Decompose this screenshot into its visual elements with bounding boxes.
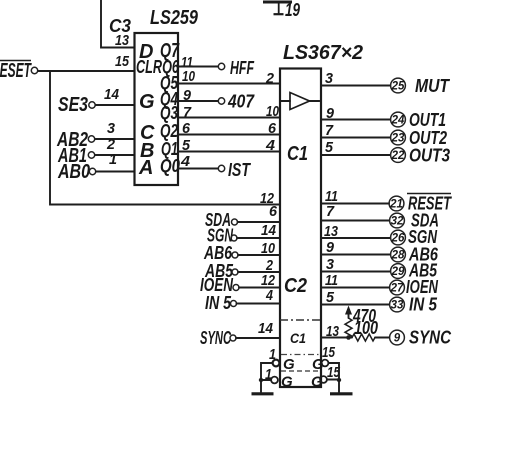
G pin circle lower left xyxy=(271,377,278,384)
signal SGN (left) xyxy=(207,226,237,246)
svg-text:10: 10 xyxy=(182,68,196,85)
svg-text:A: A xyxy=(138,157,153,179)
signal SDA (left) xyxy=(205,210,238,230)
ground (left) xyxy=(252,392,274,395)
svg-text:19: 19 xyxy=(285,0,300,20)
svg-text:Q0: Q0 xyxy=(160,156,180,176)
svg-text:LS367×2: LS367×2 xyxy=(283,42,363,64)
svg-text:9: 9 xyxy=(326,239,335,256)
svg-text:IOEN: IOEN xyxy=(200,275,234,295)
wire Q5 to 407 xyxy=(178,100,218,102)
svg-text:5: 5 xyxy=(326,289,335,306)
wire G upper left to ground xyxy=(261,363,273,392)
svg-text:407: 407 xyxy=(227,92,255,112)
terminal 21 RESET xyxy=(389,194,452,214)
wire Q7 to HFF xyxy=(178,66,218,68)
svg-text:23: 23 xyxy=(391,133,405,145)
svg-text:14: 14 xyxy=(261,222,277,239)
wire C3 to LS259 pin D xyxy=(101,0,135,48)
wire pin9 to AB6 out xyxy=(321,254,390,256)
terminal 24 OUT1 xyxy=(391,110,446,130)
svg-text:Q2: Q2 xyxy=(160,121,178,141)
svg-text:SYNC: SYNC xyxy=(200,328,232,348)
svg-text:14: 14 xyxy=(104,86,120,103)
wire pin13 to SGN out xyxy=(321,237,390,239)
svg-text:6: 6 xyxy=(269,203,278,220)
wire pin3 to MUT xyxy=(321,85,390,87)
wire pin7 to SDA out xyxy=(321,220,389,222)
svg-text:IST: IST xyxy=(228,160,252,180)
svg-text:10: 10 xyxy=(266,103,280,120)
svg-text:26: 26 xyxy=(391,233,405,245)
svg-text:21: 21 xyxy=(389,199,403,211)
svg-text:11: 11 xyxy=(325,272,338,289)
section divider dotted xyxy=(281,354,321,356)
svg-text:3: 3 xyxy=(107,120,116,137)
svg-text:SYNC: SYNC xyxy=(409,328,452,348)
wire AB5 xyxy=(238,271,280,273)
wire pin5 to OUT3 xyxy=(321,154,390,156)
terminal 23 OUT2 xyxy=(391,128,447,148)
IC U2 LS367x2 xyxy=(280,69,321,388)
resistor 470 (vertical, to arrow) xyxy=(345,306,376,339)
wire pin5 to IN5 out xyxy=(321,304,389,306)
signal SE3 xyxy=(58,94,95,116)
G pin circle upper right xyxy=(322,360,329,367)
G pin circle lower right xyxy=(320,376,327,383)
wire Q6 to LS367 pin 2 xyxy=(178,83,280,85)
svg-text:28: 28 xyxy=(391,250,405,262)
svg-text:15: 15 xyxy=(322,344,336,361)
svg-text:7: 7 xyxy=(326,203,335,220)
svg-text:2: 2 xyxy=(265,70,275,87)
svg-text:100: 100 xyxy=(354,318,378,338)
wire AB1 to B xyxy=(95,154,135,156)
wire AB0 to A xyxy=(96,171,135,173)
svg-text:27: 27 xyxy=(390,283,404,295)
svg-text:G: G xyxy=(281,374,293,391)
wire IN5 xyxy=(237,303,281,305)
svg-text:OUT3: OUT3 xyxy=(409,146,450,166)
signal AB5 (left) xyxy=(204,261,238,281)
wire G upper right to ground xyxy=(328,363,339,392)
terminal 33 IN5 xyxy=(390,295,438,315)
wire G lower left to ground xyxy=(261,379,271,381)
wire RESET branch to LS367 pin 12 xyxy=(50,71,280,205)
svg-text:C2: C2 xyxy=(284,275,307,297)
terminal 28 AB6 xyxy=(391,245,439,265)
svg-text:IN 5: IN 5 xyxy=(205,293,232,313)
wire pin9 to OUT1 xyxy=(321,119,390,121)
wire SYNC xyxy=(236,337,280,339)
wire pin13 to resistor xyxy=(321,337,352,339)
junction dot right xyxy=(337,378,341,382)
svg-text:AB6: AB6 xyxy=(203,243,233,263)
signal AB2 xyxy=(56,129,94,151)
svg-text:4: 4 xyxy=(265,287,273,304)
svg-text:HFF: HFF xyxy=(230,58,255,78)
svg-text:33: 33 xyxy=(391,300,404,312)
svg-text:14: 14 xyxy=(258,320,274,337)
terminal HFF xyxy=(218,58,254,78)
wire SGN xyxy=(237,237,280,239)
svg-text:C1: C1 xyxy=(290,330,306,346)
svg-text:7: 7 xyxy=(325,122,334,139)
svg-text:6: 6 xyxy=(268,120,277,137)
terminal 407 xyxy=(218,92,255,112)
junction dot xyxy=(346,335,351,340)
wire IOEN xyxy=(239,287,280,289)
svg-text:RESET: RESET xyxy=(0,60,32,82)
signal AB6 (left) xyxy=(203,243,238,263)
wire pin7 to OUT2 xyxy=(321,137,390,139)
svg-text:3: 3 xyxy=(325,70,334,87)
svg-text:4: 4 xyxy=(265,137,276,154)
terminal 22 OUT3 xyxy=(391,146,450,166)
svg-text:Q3: Q3 xyxy=(160,103,178,123)
wire SDA xyxy=(238,221,281,223)
IC U1 LS259 xyxy=(135,33,179,185)
wire RESET to pin 15 xyxy=(38,70,135,72)
signal AB1 xyxy=(57,145,94,167)
svg-text:25: 25 xyxy=(391,81,405,93)
wire Q2 to LS367 pin 6 xyxy=(178,134,280,136)
terminal 27 IOEN xyxy=(390,277,439,297)
terminal 25 MUT xyxy=(391,76,451,96)
svg-text:5: 5 xyxy=(325,139,334,156)
wire pin3 to AB5 out xyxy=(321,271,390,273)
svg-text:32: 32 xyxy=(391,216,404,228)
wire Q3 to LS367 pin 10 xyxy=(178,117,280,119)
svg-text:15: 15 xyxy=(115,53,130,70)
svg-text:13: 13 xyxy=(115,32,130,49)
wire AB2 to C xyxy=(95,138,135,140)
svg-text:OUT1: OUT1 xyxy=(409,110,446,130)
terminal 26 SGN xyxy=(391,227,438,247)
svg-text:9: 9 xyxy=(394,333,401,345)
svg-text:1: 1 xyxy=(109,151,117,168)
svg-text:LS259: LS259 xyxy=(150,7,199,29)
svg-text:C1: C1 xyxy=(287,143,308,165)
svg-text:AB0: AB0 xyxy=(57,161,90,183)
svg-text:MUT: MUT xyxy=(415,76,451,96)
wire pin11 to RESET out xyxy=(321,203,389,205)
svg-text:IN 5: IN 5 xyxy=(409,295,438,315)
terminal 32 SDA xyxy=(390,211,439,231)
svg-text:24: 24 xyxy=(391,115,405,127)
svg-text:4: 4 xyxy=(180,153,191,170)
signal AB0 xyxy=(57,161,95,183)
section divider dashed xyxy=(281,370,320,372)
terminal IST xyxy=(218,160,251,180)
wire pin11 to IOEN out xyxy=(321,287,389,289)
wire AB6 xyxy=(238,254,280,256)
capacitor 19 (cut off at top edge) xyxy=(263,0,300,20)
signal RESET (left, overline, cut at edge) xyxy=(0,60,38,82)
signal IOEN (left) xyxy=(200,275,239,295)
ground (right) xyxy=(330,392,353,395)
wire resistor to SYNC out xyxy=(375,337,389,339)
wire G lower right to ground xyxy=(327,379,339,381)
svg-text:22: 22 xyxy=(391,150,405,162)
svg-text:G: G xyxy=(283,356,295,373)
svg-text:G: G xyxy=(139,91,155,113)
signal SYNC (left) xyxy=(200,328,236,348)
svg-text:SE3: SE3 xyxy=(58,94,88,116)
terminal 29 AB5 xyxy=(391,261,438,281)
wire SE3 to G xyxy=(96,104,135,106)
wire Q0 to IST xyxy=(178,168,218,170)
section divider dash-dot xyxy=(280,319,321,321)
svg-text:3: 3 xyxy=(326,256,335,273)
wire Q1 to LS367 pin 4 xyxy=(178,151,280,153)
terminal 9 SYNC xyxy=(390,328,452,348)
resistor 100 (horizontal) xyxy=(352,318,378,341)
signal IN5 (left) xyxy=(205,293,237,313)
G pin circle upper left xyxy=(273,360,280,367)
junction dot left xyxy=(259,378,263,382)
buffer triangle U2a xyxy=(281,93,320,110)
svg-text:29: 29 xyxy=(391,266,405,278)
